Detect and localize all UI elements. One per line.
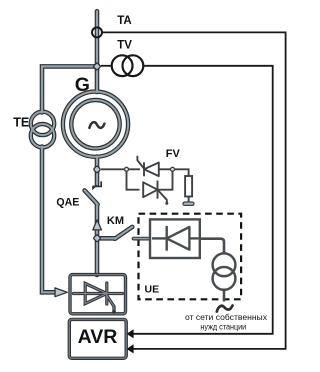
svg-text:TV: TV (117, 39, 132, 51)
white halo where wires cross dashed border (136, 238, 224, 303)
wire QAE to KM diamond (95, 204, 100, 238)
node junction at KM (diamond) (93, 234, 101, 242)
wire KM blade (115, 227, 133, 239)
generator G outer circle (63, 92, 128, 157)
network wavy symbol (217, 306, 233, 312)
QAE fixed contact hook (92, 181, 102, 186)
wire FV loop (127, 169, 173, 189)
transformer TE lower circle (31, 124, 54, 147)
svg-text:от сети собственных: от сети собственных (185, 312, 268, 322)
wire node to FV (101, 168, 127, 170)
generator sine symbol (89, 122, 104, 128)
node junction below G (diamond) (93, 166, 101, 174)
svg-text:KM: KM (107, 215, 124, 227)
wire transformer to network (223, 290, 226, 302)
svg-text:нужд станции: нужд станции (200, 321, 246, 331)
wire KM diamond to blade pivot (97, 236, 115, 241)
node junction at TV tap (diamond) (93, 63, 101, 71)
rectifier box of UE (150, 219, 200, 258)
current transformer TA (92, 27, 102, 37)
voltage transformer TV circle 2 (122, 55, 143, 76)
voltage transformer TV circle 1 (112, 55, 133, 76)
transformer UE lower circle (213, 267, 236, 290)
terminal pad below resistor (183, 202, 194, 205)
generator G inner circle (71, 100, 119, 148)
KM breaker arrowhead on bus (93, 220, 102, 230)
arrow into AVR upper (127, 329, 134, 338)
wire KM into rectifier (re-draw over halo) (134, 237, 149, 241)
svg-text:QAE: QAE (56, 196, 79, 208)
converter box border (70, 275, 126, 314)
node dot FV right (171, 167, 175, 171)
wire TV feedback: right and down to AVR (133, 66, 273, 334)
dashed box UE (139, 214, 242, 300)
transformer UE upper circle (213, 253, 236, 276)
svg-text:TA: TA (117, 15, 131, 27)
thyristor FV bottom (points right) (143, 181, 167, 204)
wire TV stub from junction (101, 65, 112, 67)
thyristor FV top (points left) (137, 156, 158, 177)
wire KM diamond to converter box (95, 238, 100, 275)
wire main bus top (95, 11, 100, 92)
svg-text:UE: UE (145, 284, 160, 296)
svg-text:TE: TE (13, 116, 29, 130)
wire FV top branch (127, 168, 141, 170)
wire rectifier to transformer (200, 239, 224, 254)
wire G bottom to node (95, 157, 100, 170)
svg-text:AVR: AVR (78, 326, 118, 348)
arrow into AVR lower (127, 344, 134, 353)
svg-text:FV: FV (166, 148, 181, 160)
wire QAE blade (85, 190, 98, 204)
AVR box border (69, 319, 126, 358)
wire branch to TE (42, 66, 97, 112)
wire node to QAE contact (95, 169, 100, 184)
wire resistor bottom (188, 197, 190, 203)
wire TA feedback: right and down to AVR (102, 32, 286, 349)
resistor of FV (185, 176, 192, 197)
diode inside UE (points left) (152, 226, 199, 251)
svg-text:G: G (75, 74, 90, 96)
circles dark (31, 92, 128, 157)
wire FV to resistor (173, 169, 189, 176)
node dot FV left (125, 167, 129, 171)
thyristor U inside converter box (74, 283, 123, 311)
arrowhead into converter from TE (55, 288, 67, 297)
transformer TE upper circle (31, 112, 54, 135)
thyristor gate terminal dot (112, 310, 116, 314)
wire TE down to AVR converter (42, 147, 55, 293)
